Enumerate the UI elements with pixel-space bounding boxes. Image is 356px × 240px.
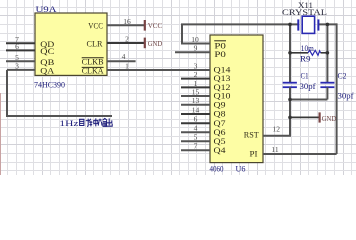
junction crystal-right <box>326 23 330 27</box>
pin PI (11) wire <box>263 153 337 155</box>
net label 1Hz clock output <box>59 118 112 127</box>
svg-text:2: 2 <box>194 70 198 79</box>
svg-text:VCC: VCC <box>148 21 163 30</box>
pin QA (3) <box>7 69 35 71</box>
svg-text:7: 7 <box>194 142 198 151</box>
svg-text:74HC390: 74HC390 <box>34 80 65 89</box>
svg-text:30pf: 30pf <box>300 82 316 91</box>
svg-text:Q9: Q9 <box>214 100 226 109</box>
svg-text:R9: R9 <box>300 55 311 64</box>
svg-text:16: 16 <box>123 17 131 26</box>
pin Q6 (4) <box>181 131 210 133</box>
svg-text:2: 2 <box>125 35 129 44</box>
svg-text:VCC: VCC <box>88 21 103 31</box>
pin CLR (2) wire to GND rail <box>107 42 145 44</box>
svg-text:30pf: 30pf <box>338 92 354 101</box>
junction GND tap <box>288 116 292 120</box>
junction crystal-left <box>288 23 292 27</box>
wire P0bar up and over to crystal <box>181 24 298 43</box>
power GND (right) <box>320 112 337 123</box>
pin CLKA (1) + wire to U6 Q14 <box>107 69 210 71</box>
pin CLKB (4) <box>107 60 136 62</box>
svg-text:4060: 4060 <box>210 164 224 173</box>
svg-text:Q10: Q10 <box>214 92 231 101</box>
pin Q14 (3) <box>181 69 210 71</box>
svg-text:RST: RST <box>244 130 260 140</box>
svg-text:CRYSTAL: CRYSTAL <box>282 8 327 17</box>
junction R9 left <box>288 51 292 55</box>
svg-text:Q13: Q13 <box>214 74 231 83</box>
wire GND tap <box>290 116 319 118</box>
pin QB (5) <box>6 60 35 62</box>
pin QD (7) <box>6 42 35 44</box>
pin Q12 (1) <box>181 86 210 88</box>
label P0 (active low) <box>214 41 226 51</box>
junction caps-bottom <box>288 98 292 102</box>
IC U6 body <box>210 35 263 163</box>
svg-text:Q8: Q8 <box>214 110 226 119</box>
pin QC (6) <box>6 49 35 51</box>
wire crystal right to PI vertical <box>318 23 336 154</box>
svg-text:C1: C1 <box>301 72 309 81</box>
pin P0bar (10) <box>181 43 210 45</box>
svg-text:14: 14 <box>192 105 200 114</box>
pin Q8 (14) <box>181 113 210 115</box>
pin VCC (16) wire to VCC rail <box>107 24 145 26</box>
capacitor C2 <box>320 83 334 88</box>
pin Q5 (5) <box>181 140 210 142</box>
svg-text:4: 4 <box>194 124 198 133</box>
svg-text:PI: PI <box>250 149 258 159</box>
resistor R9 <box>290 50 327 55</box>
capacitor C1 <box>283 83 297 88</box>
svg-text:1Hz: 1Hz <box>59 119 79 128</box>
svg-text:5: 5 <box>194 133 198 142</box>
svg-text:12: 12 <box>273 124 281 133</box>
crystal X11 <box>298 16 318 33</box>
svg-text:CLR: CLR <box>87 38 103 48</box>
wire C1 bottom down to ground node <box>289 87 291 136</box>
svg-text:9: 9 <box>194 44 198 53</box>
power GND (left) <box>145 38 163 49</box>
pin RST (12) wire to ground net <box>263 135 291 137</box>
wire QA output (1Hz) <box>6 70 112 116</box>
pin P0 (9) <box>175 51 210 53</box>
pin Q7 (6) <box>181 122 210 124</box>
svg-text:10: 10 <box>191 35 199 44</box>
svg-text:QC: QC <box>40 46 54 56</box>
svg-text:1: 1 <box>125 62 129 71</box>
wire C2 bottom stub <box>326 87 328 99</box>
svg-text:GND: GND <box>148 39 163 48</box>
IC U9A body <box>35 13 107 75</box>
power VCC <box>145 20 162 31</box>
label CLKB (active low) <box>82 58 104 67</box>
svg-text:6: 6 <box>194 115 198 124</box>
pin Q9 (13) <box>181 104 210 106</box>
svg-text:QA: QA <box>40 65 55 75</box>
svg-text:Q5: Q5 <box>214 137 226 146</box>
pin Q13 (2) <box>181 78 210 80</box>
svg-text:Q6: Q6 <box>214 128 226 137</box>
svg-text:4: 4 <box>122 52 126 61</box>
svg-text:U9A: U9A <box>36 4 58 14</box>
pin Q10 (15) <box>181 95 210 97</box>
wire caps-bottom connector <box>289 99 327 101</box>
svg-text:P0: P0 <box>214 50 226 59</box>
svg-text:CLKB: CLKB <box>82 58 104 67</box>
svg-text:GND: GND <box>322 114 337 123</box>
label CLKA (active low) <box>82 67 104 76</box>
svg-text:CLKA: CLKA <box>82 67 104 76</box>
svg-text:6: 6 <box>15 42 19 51</box>
node right vertical (PI net) <box>326 24 328 82</box>
svg-text:3: 3 <box>15 62 19 71</box>
svg-text:15: 15 <box>192 87 200 96</box>
junction R9 right <box>326 51 330 55</box>
svg-text:Q4: Q4 <box>214 146 226 155</box>
svg-text:11: 11 <box>271 145 278 154</box>
svg-text:13: 13 <box>192 96 200 105</box>
svg-text:10m: 10m <box>301 44 315 53</box>
svg-text:C2: C2 <box>338 72 347 81</box>
svg-text:Q7: Q7 <box>214 119 226 128</box>
svg-text:U6: U6 <box>236 164 246 173</box>
pin Q4 (7) <box>181 149 210 151</box>
node left vertical (P0bar net) <box>289 24 291 82</box>
